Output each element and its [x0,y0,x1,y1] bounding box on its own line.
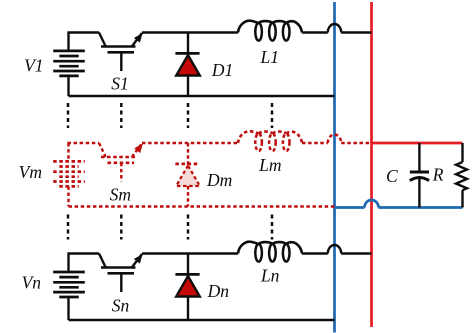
svg-text:C: C [386,166,398,186]
wire row n hop to red bus [341,252,371,254]
ellipsis column gate gap2 [120,215,123,240]
wire row1 top (switch node to diode to inductor) [142,31,238,33]
svg-text:Lm: Lm [258,155,281,175]
bus blue (negative bus) [333,2,336,333]
svg-text:Dn: Dn [207,281,230,301]
bottom rail row1 [69,95,335,97]
wire top-left row n [67,252,99,254]
ellipsis column diode gap2 [187,215,190,240]
capacitor C [410,143,429,208]
wire row1 to blue-bus hop [302,31,328,33]
hop over blue bus row m [328,134,341,143]
wire top-left row m [67,142,99,144]
bottom rail row n [69,319,335,321]
ellipsis column inductor gap1 [271,103,274,128]
ellipsis column battery gap2 [67,215,70,240]
svg-text:Vn: Vn [22,272,42,292]
wire row m hop to red bus [341,142,371,144]
ellipsis column inductor gap2 [271,215,274,240]
wire row n to blue-bus hop [302,252,328,254]
transistor Sm [99,141,146,181]
svg-text:Sm: Sm [110,185,131,205]
battery V1 [53,33,85,97]
ellipsis column battery gap1 [67,103,70,128]
hop over red bus blue wire [365,200,379,207]
wire row m top [142,142,238,144]
resistor R [456,143,467,208]
svg-text:D1: D1 [211,60,233,80]
wire load top red [372,142,463,145]
diode Dn [175,254,199,321]
wire row1 hop to red bus [341,31,371,33]
transistor Sn [99,252,146,292]
inductor Ln [238,242,302,254]
bottom rail row m [69,205,335,207]
transistor S1 [99,31,146,71]
svg-text:Ln: Ln [260,266,280,286]
ellipsis column gate gap1 [120,103,123,128]
battery Vn [53,254,85,321]
battery Vm [53,143,85,207]
wire top-left row1 [67,31,99,33]
inductor Lm [238,131,302,143]
svg-text:Vm: Vm [19,162,42,182]
hop over blue bus row n [328,245,341,254]
svg-text:R: R [432,165,444,185]
wire row n top [142,252,238,254]
diode Dm [175,143,199,207]
svg-text:Dm: Dm [206,170,232,190]
wire row m to blue-bus hop [302,142,328,144]
wire load bottom blue (hop to R) [379,206,463,209]
svg-text:V1: V1 [24,56,43,76]
svg-text:Sn: Sn [112,296,130,316]
svg-text:L1: L1 [260,47,279,67]
bus red (positive bus) [370,2,373,327]
wire load bottom blue (bus to hop) [335,206,365,209]
inductor L1 [238,21,302,33]
svg-text:S1: S1 [111,74,129,94]
ellipsis column diode gap1 [187,103,190,128]
hop over blue bus row1 [328,24,341,33]
diode D1 [175,33,199,97]
